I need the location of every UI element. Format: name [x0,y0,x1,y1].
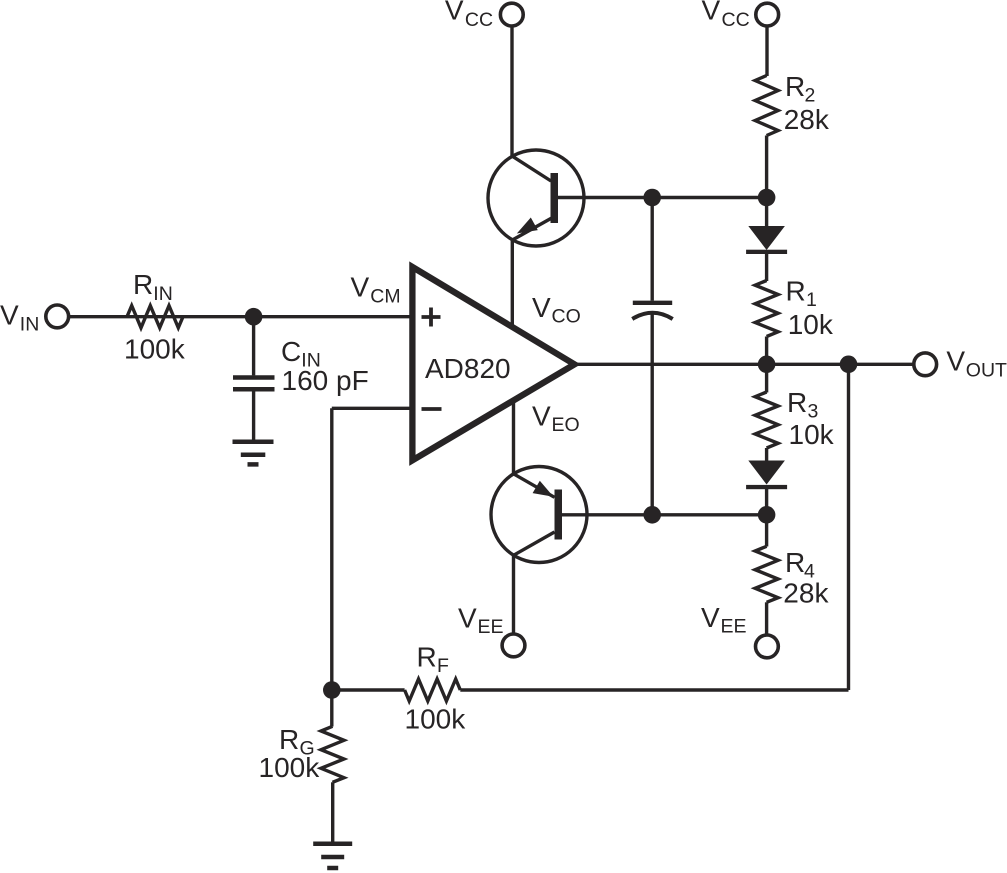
svg-text:IN: IN [20,314,40,336]
svg-text:100k: 100k [405,704,467,735]
wire node to diode D1 [765,198,768,228]
svg-text:EO: EO [552,414,580,436]
wire D2 to node [765,488,768,515]
svg-text:R: R [787,387,807,418]
node Q1 base / cap [643,189,661,207]
svg-text:V: V [701,602,720,633]
resistor R2 zigzag [755,76,778,136]
node output feedback [840,356,858,374]
resistor RF zigzag [405,679,461,701]
wire op-amp minus horizontal [332,407,412,410]
svg-text:R: R [417,642,437,673]
svg-text:V: V [532,292,551,323]
svg-text:100k: 100k [124,334,186,365]
svg-text:V: V [532,401,551,432]
wire Cin stem lower [252,391,255,441]
svg-text:V: V [458,603,477,634]
svg-text:100k: 100k [259,752,321,783]
node Q2 base / cap [643,506,661,524]
wire VCC left stem [510,26,513,157]
wire input Vin to op-amp + [68,315,412,318]
terminal VEE left [502,634,525,657]
op-amp plus sign [422,315,441,319]
svg-text:CO: CO [552,306,581,328]
svg-text:28k: 28k [783,578,829,609]
terminal VEE right [756,635,779,658]
diode D2 [748,461,785,485]
wire cap stem lower [651,313,654,515]
wire R4 to VEE terminal [765,602,768,635]
svg-text:V: V [351,272,370,303]
svg-text:EE: EE [721,615,747,637]
wire RG to ground [331,782,334,844]
svg-text:28k: 28k [784,104,830,135]
svg-text:R: R [279,724,299,755]
svg-text:C: C [281,336,301,367]
ground CIN [233,440,274,445]
wire op-amp minus vertical [330,408,333,690]
svg-text:V: V [946,345,965,376]
wire node to RG [330,690,333,727]
wire op-amp VEO tap to Q2 [512,397,515,474]
svg-text:V: V [445,0,464,25]
wire R1 to output node [765,337,768,365]
wire RF to node [332,688,405,691]
ground RG [313,842,352,847]
wire feedback horizontal [460,688,848,691]
svg-text:EE: EE [478,616,504,638]
resistor R3 zigzag [755,392,778,448]
svg-text:10k: 10k [788,309,834,340]
node input/Cin [245,308,263,326]
wire Q2 base to right column [562,513,767,516]
wire Q2 collector to VEE [512,555,515,634]
wire Cin stem upper [252,317,255,376]
wire VCC right stem [765,26,768,76]
svg-text:R: R [786,276,806,307]
node R2/D1 [758,189,776,207]
svg-text:V: V [0,300,19,331]
terminal VCC right [756,3,779,26]
svg-text:V: V [702,0,721,25]
svg-text:CC: CC [465,9,493,31]
node output R1/R3 [758,356,776,374]
terminal VIN [46,305,69,328]
op-amp U1 AD820 [412,267,574,460]
wire R3 to diode D2 [765,448,768,462]
svg-text:AD820: AD820 [425,353,511,384]
node RG/RF [323,681,341,699]
capacitor CIN plates [233,375,275,380]
resistor R4 zigzag [755,546,778,602]
svg-text:R: R [785,547,805,578]
terminal VCC left [500,3,523,26]
resistor RG zigzag [321,726,344,782]
wire R2 to node [765,136,768,198]
wire output node to R3 [765,364,768,392]
svg-text:10k: 10k [789,419,835,450]
capacitor C plates [633,301,672,305]
svg-text:1: 1 [806,289,817,311]
svg-text:OUT: OUT [966,360,1007,382]
op-amp minus sign [422,407,442,411]
wire feedback vertical [847,364,850,690]
svg-text:160 pF: 160 pF [282,365,369,396]
resistor R1 zigzag [755,281,778,337]
transistor Q2 [491,467,587,563]
wire D1 to R1 [765,253,768,281]
node D2/R4 [758,506,776,524]
diode D1 [748,226,785,250]
wire Q1 base to right column [558,196,767,199]
svg-text:IN: IN [153,283,173,305]
terminal VOUT [914,353,937,376]
wire node to R4 [765,515,768,547]
wire cap stem upper [651,198,654,301]
svg-text:F: F [437,655,449,677]
resistor RIN zigzag [127,306,183,328]
wire op-amp output [572,363,914,366]
svg-text:R: R [133,269,153,300]
svg-text:CC: CC [722,9,750,31]
junction node dots [245,189,858,699]
svg-text:R: R [785,71,805,102]
transistor Q1 [488,150,584,246]
svg-text:CM: CM [370,286,400,308]
wire Q1 emitter to op-amp VCO tap [511,240,514,331]
